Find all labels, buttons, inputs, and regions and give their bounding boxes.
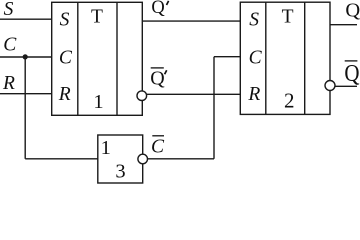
svg-text:1: 1 <box>93 91 103 113</box>
svg-text:C: C <box>249 47 263 68</box>
label Qbar <box>344 60 359 87</box>
svg-text:2: 2 <box>284 88 295 112</box>
wire R input <box>0 93 52 95</box>
svg-text:1: 1 <box>101 137 111 159</box>
wire Cbar up <box>213 57 215 159</box>
svg-text:Q: Q <box>151 0 165 18</box>
inversion bubble Cbar of gate 3 <box>138 154 148 164</box>
svg-text:T: T <box>91 6 103 27</box>
flip-flop 2 box <box>240 2 330 114</box>
svg-text:S: S <box>249 10 259 31</box>
inversion bubble Qbar of FF2 <box>325 81 335 91</box>
wire C feed to gate 3 <box>25 158 98 160</box>
svg-text:C: C <box>151 136 165 157</box>
label Qbar' <box>150 67 167 89</box>
junction dot on C <box>23 54 28 59</box>
wire S input <box>0 18 52 20</box>
gate 3 box <box>98 135 143 183</box>
label Q' <box>151 0 168 18</box>
svg-text:S: S <box>4 0 14 20</box>
wire Q output <box>330 24 357 26</box>
svg-text:R: R <box>2 73 15 94</box>
svg-text:C: C <box>59 47 73 68</box>
svg-text:S: S <box>60 10 70 31</box>
flip-flop 1 box <box>52 2 143 115</box>
svg-text:C: C <box>3 34 17 55</box>
inversion bubble Qbar' of FF1 <box>137 91 147 101</box>
wire C feed down <box>24 57 26 159</box>
wire Qbar output <box>335 85 357 87</box>
wire Qbar' to R of FF2 <box>147 93 241 95</box>
svg-text:Q: Q <box>345 0 360 21</box>
wire Q' to S of FF2 <box>142 20 240 22</box>
svg-text:Q: Q <box>344 60 359 87</box>
wire Cbar to C of FF2 <box>214 56 240 58</box>
svg-text:R: R <box>247 84 260 105</box>
svg-text:3: 3 <box>115 160 125 182</box>
wire C input <box>0 56 52 58</box>
svg-text:R: R <box>58 84 71 105</box>
wire Cbar output of gate 3 <box>148 158 215 160</box>
svg-text:Q: Q <box>150 67 165 89</box>
label Cbar <box>151 136 165 158</box>
svg-text:T: T <box>282 6 294 27</box>
